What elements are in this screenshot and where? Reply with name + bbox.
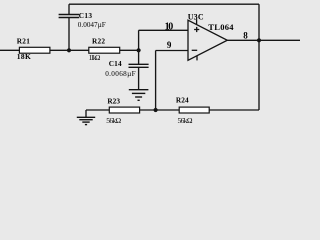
svg-text:11kΩ: 11kΩ (89, 54, 101, 62)
wire node B riser to pin 10 (138, 30, 140, 50)
wire R22 to node B (120, 49, 139, 51)
svg-text:C14: C14 (109, 59, 122, 68)
svg-text:8: 8 (243, 30, 248, 40)
capacitor C14 (129, 64, 149, 67)
wire C14 branch lower to ground (138, 67, 140, 89)
svg-text:0.0068µF: 0.0068µF (105, 70, 135, 78)
svg-text:R21: R21 (17, 37, 31, 46)
wire main input segment (0, 49, 19, 51)
wire feedback right vertical (258, 4, 260, 40)
wire left ground to R23 (86, 109, 109, 111)
wire feedback top horizontal (69, 3, 259, 5)
resistor R24 (179, 107, 209, 113)
wire pin 9 riser down (155, 51, 157, 111)
node C junction dot (154, 108, 158, 112)
svg-text:R22: R22 (92, 37, 105, 46)
node A junction dot (67, 48, 71, 52)
wire R21 to node A (50, 49, 89, 51)
resistor R23 (109, 107, 139, 113)
svg-text:56kΩ: 56kΩ (178, 116, 193, 125)
svg-text:9: 9 (167, 40, 172, 50)
svg-text:C13: C13 (79, 11, 93, 20)
ground (left, R23) (77, 117, 95, 124)
wire pin 9 horizontal (156, 50, 188, 52)
op-amp U3C (188, 19, 227, 60)
wire C13 branch vertical lower (68, 18, 70, 51)
resistor R21 (19, 47, 50, 53)
svg-text:0.0047µF: 0.0047µF (78, 21, 106, 29)
resistor R22 (89, 47, 120, 53)
svg-text:U3C: U3C (188, 12, 204, 21)
wire R23 to node C (140, 109, 156, 111)
node B junction dot (137, 48, 141, 52)
wire output pin 8 (227, 39, 300, 41)
svg-text:56kΩ: 56kΩ (106, 116, 121, 125)
svg-text:TL064: TL064 (208, 22, 234, 32)
wire C14 branch upper (138, 50, 140, 64)
wire left ground stem (85, 110, 87, 117)
wire R24 to right corner (209, 109, 259, 111)
svg-text:R24: R24 (176, 96, 189, 105)
node output junction dot (257, 38, 261, 42)
svg-text:R23: R23 (107, 97, 120, 106)
svg-text:10: 10 (165, 22, 174, 33)
ground (C14) (129, 90, 149, 101)
wire feedback lower right vertical (258, 40, 260, 110)
wire pin 10 horizontal (139, 29, 188, 31)
svg-text:18K: 18K (17, 52, 31, 61)
wire node C to R24 (156, 109, 180, 111)
capacitor C13 (59, 15, 80, 18)
wire C13 branch vertical upper (68, 4, 70, 14)
